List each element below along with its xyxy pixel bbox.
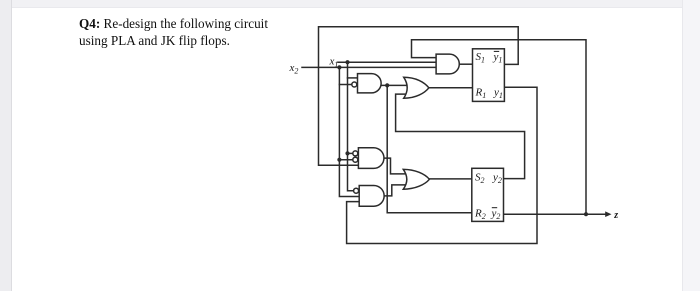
wire x2 vertical drop (339, 67, 359, 196)
wire AND2 output down to R2 (387, 85, 472, 212)
wire x2 branch to AND2 bubble (339, 84, 352, 86)
junction dot z line (584, 212, 588, 216)
wire x2 branch to AND3 bubble (339, 159, 353, 161)
inverter bubble on G3 x1 input (353, 151, 358, 156)
or-gate G5 (-> R1) (404, 77, 429, 98)
svg-text:z: z (613, 210, 618, 221)
wire OR1 output to R1 (429, 87, 473, 89)
wire AND3 output to OR2 (384, 158, 409, 174)
wire feedback y1bar from FF1 around top-left to AND3 (319, 27, 519, 165)
overline y1bar (494, 50, 499, 52)
wire y2 feedback to OR1 lower input (396, 94, 525, 179)
junction dot x1 line (345, 60, 349, 64)
wire AND2 output to OR1 (381, 84, 409, 86)
flip-flop FF1 box S1/R1 (473, 49, 505, 102)
wire y1 feedback down to AND4 (347, 87, 537, 243)
wire AND4 output to OR2 (384, 185, 409, 196)
and-gate G4 (x1bar x2 y1) (359, 186, 384, 207)
wire AND1 output to S1 (459, 63, 473, 65)
wire x2 input line (302, 66, 437, 68)
inverter bubble on G4 x1 input (354, 188, 359, 193)
wire y2bar to z output (504, 213, 608, 215)
or-gate G6 (-> S2) (403, 169, 429, 189)
and-gate G2 (x1 x2bar) (358, 74, 382, 93)
wire x1 vertical drop (348, 62, 355, 191)
junction dot x2 line (337, 65, 341, 69)
wire feedback y2bar to AND1 top input (412, 40, 587, 214)
wire x1 input line (338, 61, 437, 63)
svg-text:x1: x1 (329, 56, 339, 70)
wire x1 branch to AND2 (348, 77, 359, 79)
arrowhead z output (605, 211, 611, 217)
inverter bubble on G3 x2 input (353, 157, 358, 162)
junction dot x1 vertical at AND3 (345, 151, 349, 155)
and-gate G1 (x1 x2 y2bar -> S1) (436, 54, 459, 74)
overline y2bar (492, 207, 497, 209)
inverter bubble on G2 x2 input (352, 82, 357, 87)
and-gate G3 (x1bar x2bar y1bar) (358, 148, 384, 169)
junction dot x2 vertical at AND3 (337, 158, 341, 162)
flip-flop FF2 box S2/R2 (472, 168, 504, 221)
wire x1 branch to AND3 bubble (348, 152, 354, 154)
junction dot AND2 output (385, 83, 389, 87)
wire OR2 output to S2 (429, 178, 472, 180)
svg-text:x2: x2 (289, 62, 299, 76)
